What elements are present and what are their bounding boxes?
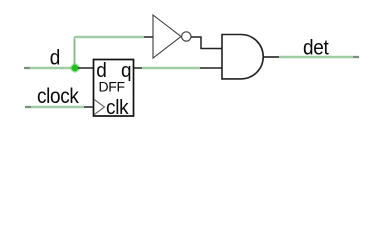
wire clock (green): [25, 105, 84, 108]
wire d (input net, green): [24, 66, 75, 69]
wire branch vertical (d to inverter): [73, 37, 76, 68]
wire pin stub clk to DFF: [84, 106, 94, 108]
flip-flop U1 DFF body: [94, 60, 134, 117]
inverter U2 triangle: [153, 15, 181, 58]
svg-text:d: d: [50, 47, 61, 70]
wire pin stub d to DFF: [78, 67, 94, 69]
svg-text:clk: clk: [106, 96, 129, 119]
wire pin stub AND output: [264, 56, 280, 58]
wire det (output net, green): [279, 55, 359, 58]
wire inverter output to AND input (black step): [191, 37, 222, 49]
node junction on d: [70, 63, 79, 72]
and-gate U3: [222, 35, 263, 79]
wire branch horizontal (to inverter input): [75, 35, 145, 38]
wire pin stub inverter input: [144, 36, 153, 38]
svg-text:clock: clock: [37, 85, 80, 108]
wire pin stub q output: [134, 67, 143, 69]
wire pin stub q to AND input: [200, 67, 222, 69]
svg-text:DFF: DFF: [99, 79, 125, 95]
svg-text:det: det: [303, 37, 329, 60]
wire q net (green): [142, 66, 200, 69]
clock edge triangle on DFF: [94, 100, 104, 115]
inverter bubble: [182, 32, 191, 41]
